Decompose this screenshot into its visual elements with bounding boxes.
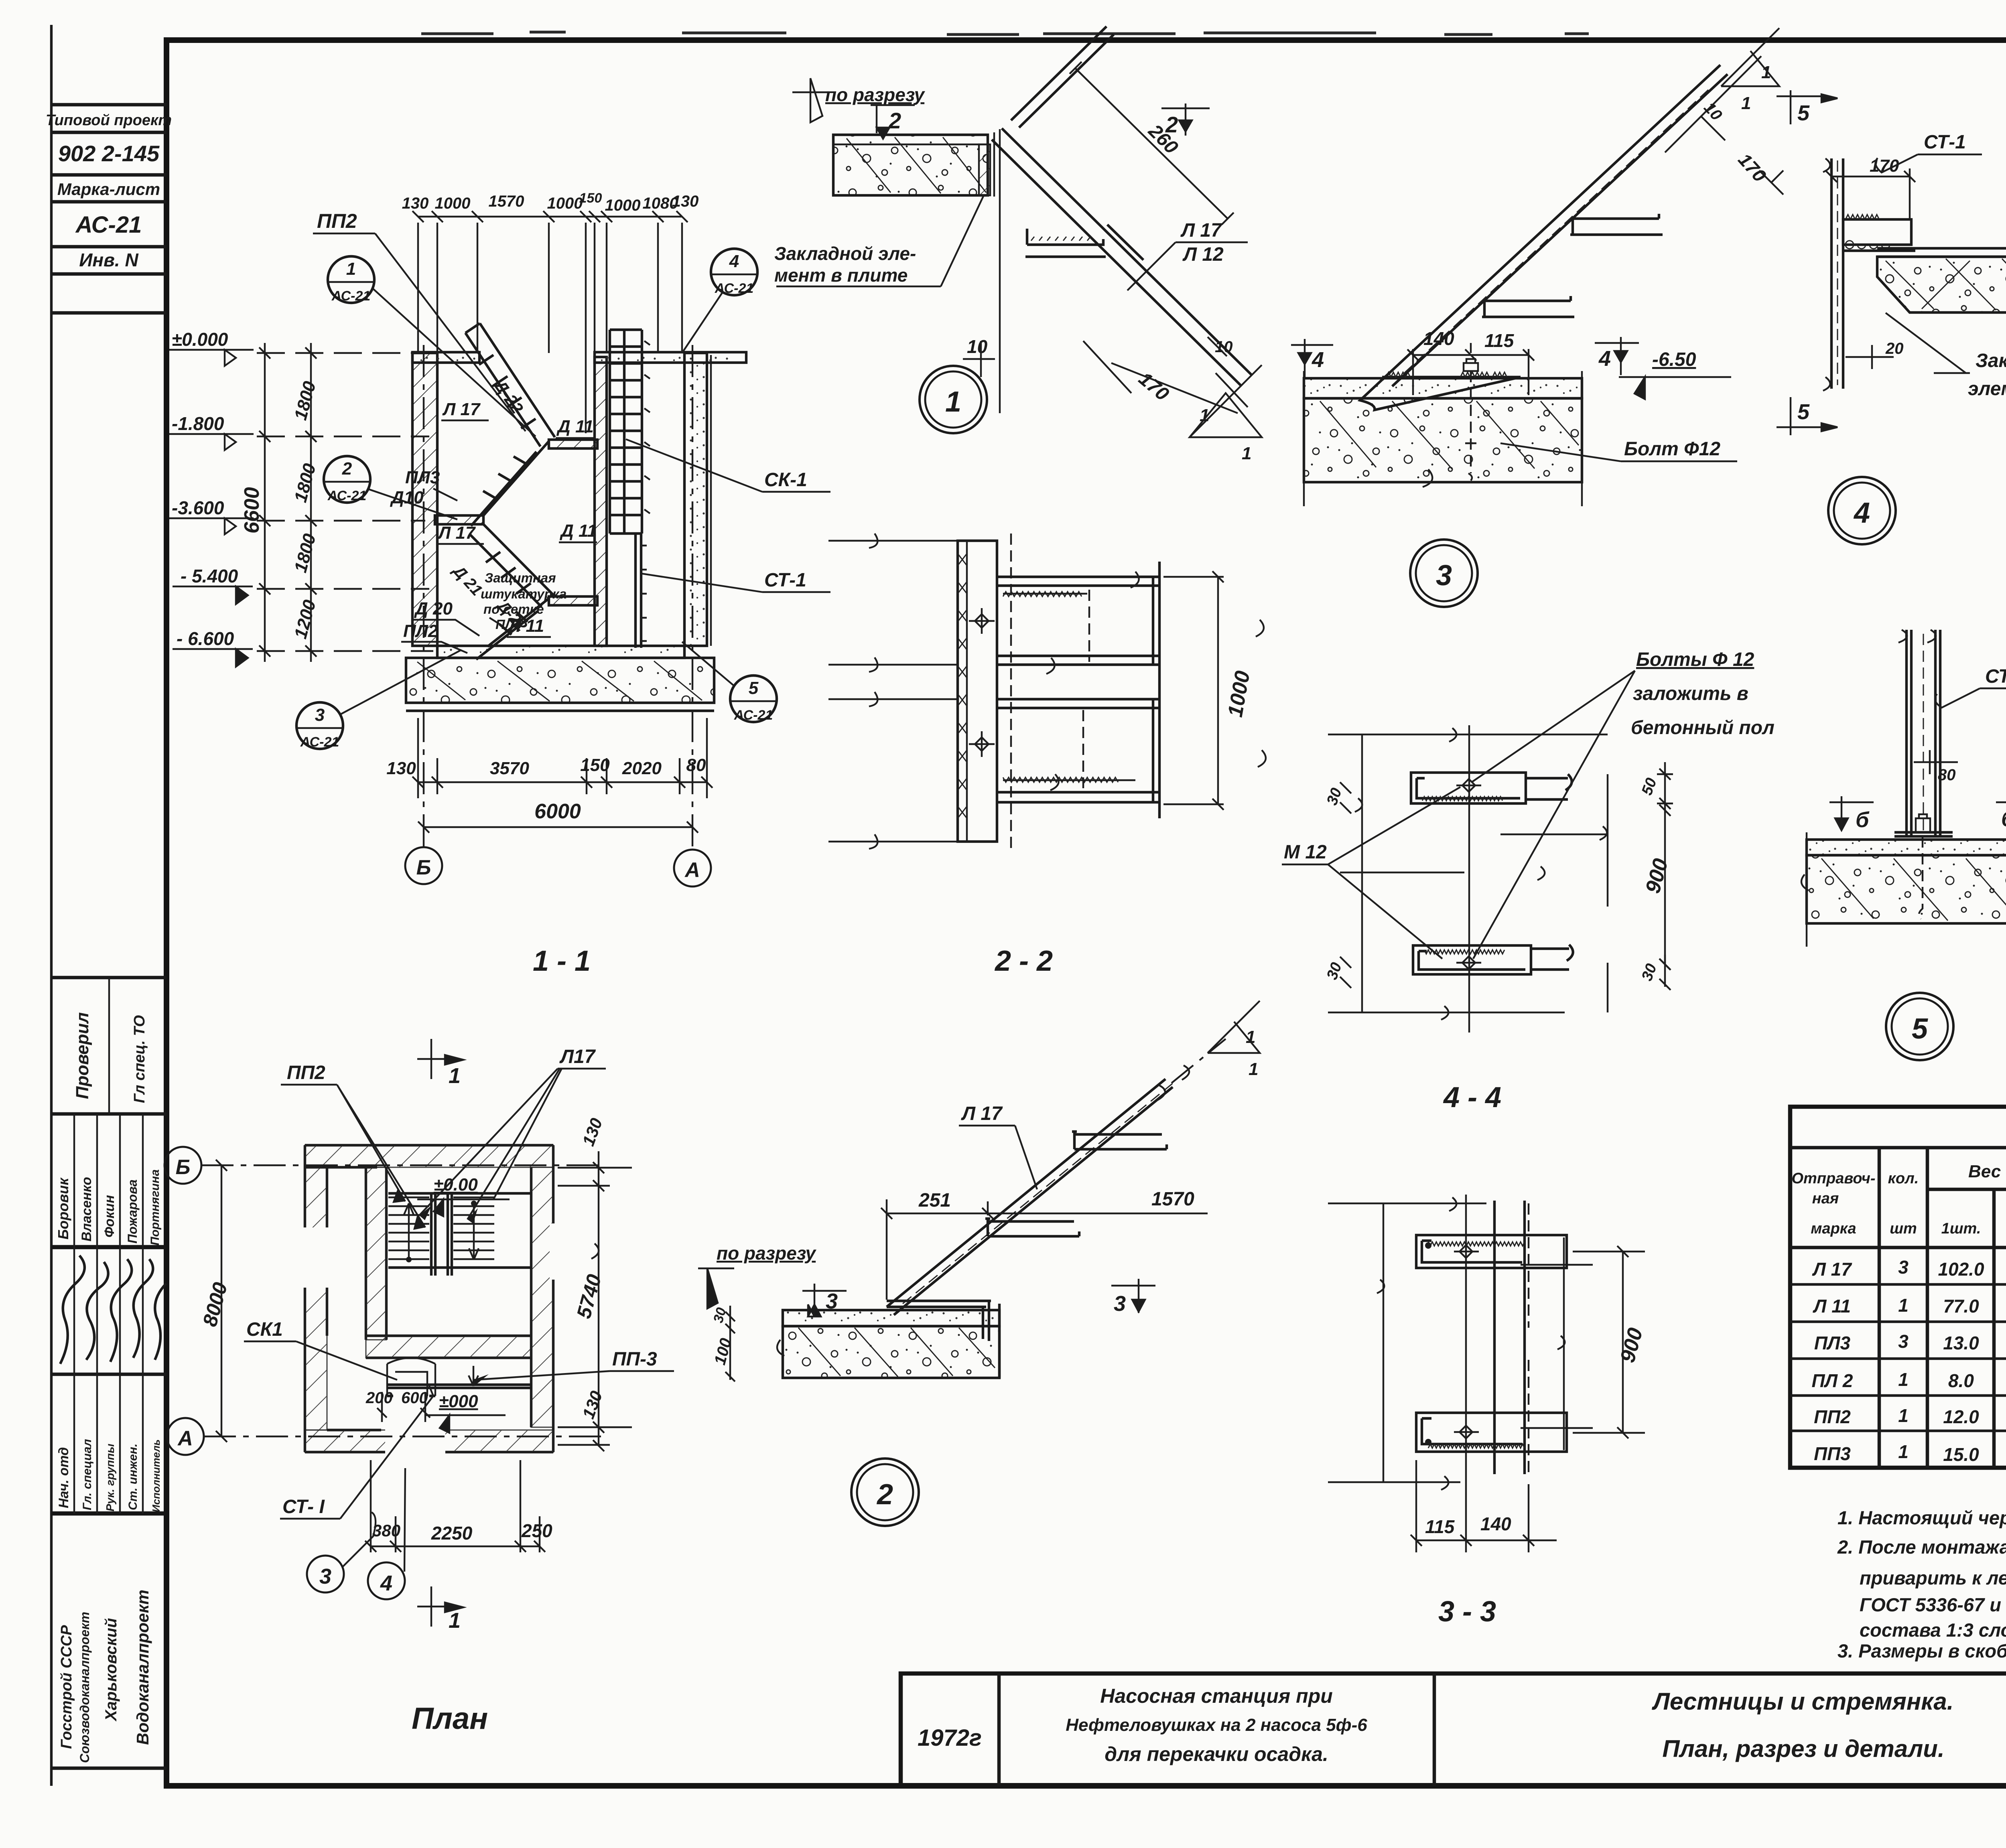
embedded element hatch at slab right end [979,144,990,195]
svg-text:1000: 1000 [1224,669,1255,719]
right wall [684,353,707,646]
svg-text:15.0: 15.0 [1943,1444,1979,1465]
svg-text:1: 1 [1200,406,1209,425]
svg-text:Вес в кг: Вес в кг [1968,1162,2006,1181]
svg-text:Л 17: Л 17 [437,523,476,543]
stairwell walls [366,1167,531,1358]
svg-text:2: 2 [876,1479,893,1511]
svg-text:СТ-1: СТ-1 [764,570,806,591]
svg-text:1: 1 [1898,1295,1909,1316]
svg-text:АС-21: АС-21 [331,288,371,304]
svg-text:77.0: 77.0 [1943,1296,1979,1317]
svg-text:ПП2: ПП2 [317,210,357,232]
svg-text:Рук. группы: Рук. группы [104,1444,116,1511]
svg-text:900: 900 [1641,856,1673,896]
svg-text:АС-21: АС-21 [715,281,754,296]
svg-text:12.0: 12.0 [1943,1406,1979,1427]
svg-text:13.0: 13.0 [1943,1333,1979,1353]
svg-text:элемент в пли-: элемент в пли- [1968,378,2006,400]
circle (3) [1410,540,1478,607]
circles 3 and 4 [307,1556,344,1592]
svg-text:3: 3 [1898,1257,1909,1278]
top wall hatch [305,1145,553,1167]
wall strip [958,541,997,842]
svg-text:АС-21: АС-21 [300,734,339,750]
svg-text:1шт.: 1шт. [1941,1220,1981,1237]
lower channel [1413,945,1573,974]
svg-text:102.0: 102.0 [1938,1259,1984,1280]
landing -3.600 [435,515,483,524]
svg-text:2. После монтажа стальных л: 2. После монтажа стальных лестниц с обра… [1837,1536,2006,1558]
svg-text:5: 5 [1797,101,1810,125]
svg-text:шт: шт [1890,1220,1917,1237]
svg-text:План: План [412,1702,488,1736]
vertical dim chains [259,343,317,662]
vertical drop line [999,129,1001,413]
svg-text:Союзводоканалпроект: Союзводоканалпроект [77,1612,92,1763]
slope triangle [1721,28,1779,86]
svg-text:4: 4 [1312,348,1324,372]
dim frame [1328,728,1608,1020]
svg-text:Болты Ф 12: Болты Ф 12 [1636,649,1754,670]
svg-text:115: 115 [1425,1516,1455,1537]
svg-text:ПП2: ПП2 [1814,1406,1851,1427]
stringer diagonal [887,1079,1173,1315]
svg-text:приварить к лестничным марш: приварить к лестничным маршам. сетку № 2… [1860,1567,2006,1588]
base plate [1894,832,1953,836]
svg-text:Л 11: Л 11 [1813,1296,1851,1317]
svg-text:СТ-1: СТ-1 [1924,132,1966,153]
svg-text:-1.800: -1.800 [172,413,224,434]
svg-text:1000: 1000 [605,197,641,214]
small 30 dims [1340,782,1351,988]
svg-text:Типовой проект: Типовой проект [46,112,172,129]
scan artifact streak on top edge [421,32,1589,34]
svg-text:150: 150 [579,191,602,206]
svg-text:380: 380 [372,1521,400,1540]
dim 20 bottom [1846,345,1894,369]
svg-text:б: б [1856,808,1870,832]
lower channel [1416,1413,1567,1452]
svg-text:1 - 1: 1 - 1 [533,945,591,977]
svg-text:Ст. инжен.: Ст. инжен. [126,1444,140,1510]
140 / 115 dims [1407,343,1534,395]
svg-text:130: 130 [402,195,429,212]
breaks on horizontals [1046,572,1139,790]
svg-text:ПЛ3: ПЛ3 [405,468,440,487]
slope marker 1 top right [1208,1001,1260,1053]
svg-text:Д10: Д10 [390,488,424,507]
top dim chain [412,211,688,433]
svg-text:мент в плите: мент в плите [774,265,908,286]
bottom dims 115 / 140 [1411,1460,1557,1552]
svg-text:1: 1 [1898,1405,1909,1426]
svg-text:200: 200 [365,1389,393,1407]
middle wall [595,357,607,646]
Болты Ф12 text [1631,649,1775,738]
svg-text:2020: 2020 [622,759,662,778]
svg-text:1800: 1800 [290,531,320,575]
svg-text:6000: 6000 [534,800,581,823]
svg-text:4: 4 [1598,347,1611,371]
svg-text:Д-22: Д-22 [490,375,527,417]
svg-text:ная: ная [1812,1190,1839,1207]
section marker 2 left [871,105,915,139]
svg-text:150: 150 [580,755,610,775]
svg-text:Харьковский: Харьковский [102,1618,120,1722]
level marks left [172,329,238,649]
svg-text:ПЛ3: ПЛ3 [495,617,522,632]
landing -5.400 [549,596,597,605]
svg-text:1: 1 [1761,63,1771,82]
3 markers [802,1284,847,1317]
floor screed at -6.600 [437,646,684,658]
svg-text:3: 3 [315,705,325,725]
svg-text:50: 50 [1639,776,1660,797]
svg-text:10: 10 [967,336,988,357]
svg-text:Д 11: Д 11 [559,521,597,541]
svg-text:по сетке: по сетке [483,602,544,617]
svg-text:по разрезу: по разрезу [717,1243,817,1264]
svg-text:АС-21: АС-21 [75,212,142,238]
svg-text:1000: 1000 [547,195,583,212]
landing -1.800 [549,440,597,448]
section marker 2 right [1161,103,1210,136]
svg-text:Д 11: Д 11 [556,417,594,436]
svg-text:Л 17: Л 17 [1812,1259,1852,1280]
svg-text:состава 1:3 слоем 20мм.: состава 1:3 слоем 20мм. [1860,1619,2006,1641]
dims [1665,56,1783,195]
svg-text:1: 1 [1898,1441,1909,1462]
svg-text:5: 5 [1797,400,1810,424]
svg-text:1: 1 [1741,93,1751,113]
svg-text:900: 900 [1616,1325,1647,1365]
right dims 130/5740/130 [558,1151,632,1451]
bottom dims 380 2250 250 [365,1460,545,1552]
svg-text:140: 140 [1423,328,1454,349]
svg-text:Л 17: Л 17 [1180,220,1222,241]
stringer [1360,65,1728,410]
svg-text:АС-21: АС-21 [327,488,367,503]
svg-text:А: А [177,1427,193,1450]
svg-text:4: 4 [729,252,739,271]
svg-text:1: 1 [449,1064,461,1088]
svg-text:Закладной эле-: Закладной эле- [774,243,916,264]
svg-text:80: 80 [1938,766,1956,784]
anchor bolt dashed [1919,836,1923,919]
ladder СК-1 [610,330,642,534]
svg-text:Инв. N: Инв. N [79,250,138,270]
door openings (white gaps) [301,1227,331,1288]
svg-text:1570: 1570 [489,193,524,210]
svg-text:Болт Ф12: Болт Ф12 [1624,438,1720,460]
svg-text:Госстрой СССР: Госстрой СССР [58,1625,75,1749]
svg-text:130: 130 [672,193,699,210]
svg-text:Гл спец. ТО: Гл спец. ТО [131,1015,148,1103]
section marker 1 top & bottom [417,1039,463,1079]
Закладной элемент в плите [1968,350,2006,426]
svg-text:902 2-145: 902 2-145 [58,141,160,166]
svg-text:ПП3: ПП3 [1814,1443,1851,1464]
dims 251 / 1570 [881,1199,1208,1300]
dim frame [1328,1197,1593,1490]
wall verticals [1494,1201,1525,1474]
svg-text:5: 5 [749,678,759,698]
circle (1) [920,366,987,433]
svg-text:Боровик: Боровик [55,1177,71,1239]
svg-text:по разрезу: по разрезу [825,84,926,105]
svg-text:Защитная: Защитная [485,570,556,585]
svg-text:ПП-3: ПП-3 [612,1349,657,1370]
circle (4) [1828,477,1896,544]
svg-text:100: 100 [711,1336,735,1367]
svg-text:6600: 6600 [240,487,264,534]
svg-text:3: 3 [319,1564,331,1588]
post [1907,630,1940,836]
svg-text:130: 130 [386,759,416,778]
flight 3 (down-right) [470,524,555,607]
svg-text:Д 21: Д 21 [449,561,485,599]
base plate serrated [1382,376,1521,378]
axis circles [164,1147,201,1184]
svg-text:4: 4 [380,1571,392,1595]
svg-text:80: 80 [686,755,706,775]
svg-text:140: 140 [1480,1513,1511,1534]
50 dims right [1657,762,1673,990]
900 dim [1573,1246,1645,1438]
dimension 260 along diagonal [1070,62,1234,225]
svg-text:М 12: М 12 [1284,842,1327,863]
svg-text:ПЛ3: ПЛ3 [1814,1333,1851,1353]
svg-text:1: 1 [945,386,961,418]
900 dim [1659,805,1671,970]
vertical rail [1831,158,1843,389]
svg-text:СТ-1: СТ-1 [1985,666,2006,687]
svg-text:3570: 3570 [490,759,529,778]
svg-text:2: 2 [888,108,901,133]
svg-text:2 - 2: 2 - 2 [994,945,1053,977]
svg-text:План, разрез и детали.: План, разрез и детали. [1662,1735,1944,1762]
svg-text:ПЛ 2: ПЛ 2 [1811,1370,1853,1391]
svg-text:2: 2 [342,459,352,479]
svg-text:Водоканалпроект: Водоканалпроект [133,1590,152,1745]
circle (2) [851,1459,919,1526]
upper channel [1416,1235,1567,1268]
floor slab [783,1310,999,1326]
flight arrows [404,1203,414,1260]
svg-text:170: 170 [1734,149,1770,186]
svg-text:Портнягина: Портнягина [148,1169,162,1246]
svg-text:1: 1 [449,1609,461,1633]
slope triangle 1/1 [1190,365,1262,437]
floor [1807,840,2006,855]
outer trim line [50,25,53,1786]
svg-text:Власенко: Власенко [79,1177,94,1241]
svg-text:Гл. специал: Гл. специал [81,1439,94,1510]
svg-text:б: б [2001,807,2006,831]
stair flight 1 (ПЛ2 + Л17 upper) [465,323,555,446]
svg-text:кол.: кол. [1888,1170,1919,1187]
svg-text:600: 600 [401,1389,428,1407]
lower member [997,682,1159,818]
upper member [997,562,1159,682]
svg-text:-3.600: -3.600 [172,497,224,518]
dim 170 top [1826,168,1915,219]
slab [833,135,988,195]
svg-text:30: 30 [711,1306,729,1325]
flight 2 (down-left) [471,441,549,526]
8000 dim [216,1160,227,1442]
upper channel [1411,773,1572,803]
svg-text:130: 130 [579,1388,606,1421]
svg-text:для перекачки осадка.: для перекачки осадка. [1105,1743,1328,1765]
svg-text:±0.000: ±0.000 [172,329,228,350]
svg-text:-6.50: -6.50 [1652,349,1696,370]
svg-text:Л 12: Л 12 [1182,244,1224,265]
б markers [1829,796,1874,830]
ladder СТ-1 lower [636,534,641,648]
signatures band squiggles [60,1256,85,1364]
svg-text:Б: Б [416,856,431,879]
svg-text:заложить в: заложить в [1633,683,1748,704]
stairs treads [388,1197,494,1259]
svg-text:СТ- I: СТ- I [282,1496,325,1517]
svg-text:±000: ±000 [439,1392,478,1411]
svg-text:СК1: СК1 [246,1319,283,1340]
svg-text:3: 3 [1436,560,1452,592]
svg-text:1. Настоящий чертеж рассмат: 1. Настоящий чертеж рассматривать совмес… [1837,1507,2006,1528]
svg-text:1: 1 [1898,1369,1909,1390]
svg-text:20: 20 [1885,340,1904,357]
100 / 30 dims [725,1306,735,1381]
svg-text:251: 251 [918,1190,951,1211]
svg-text:130: 130 [579,1116,606,1148]
svg-text:3: 3 [1114,1292,1126,1316]
sub dividers for signature bands [73,1114,75,1513]
svg-text:250: 250 [521,1520,552,1541]
steps [985,1132,1167,1236]
steps on stringer [1025,225,1143,260]
4 section markers [1291,339,1333,377]
svg-text:ПЛ2: ПЛ2 [403,621,438,641]
svg-text:штукатурка: штукатурка [481,586,566,601]
svg-text:Закладной: Закладной [1976,350,2006,371]
left extension lines [828,534,958,849]
svg-text:3. Размеры в скобках 'отно: 3. Размеры в скобках 'относятся к Д-22 [1837,1640,2006,1661]
svg-text:А: А [684,858,700,882]
dimension 170 lower [1083,341,1248,413]
svg-text:Нач. отд: Нач. отд [56,1447,71,1508]
svg-text:Л 17: Л 17 [442,400,481,419]
80 dim [1914,750,1958,774]
svg-text:Нефтеловушках на 2 насоса 5ф-6: Нефтеловушках на 2 насоса 5ф-6 [1066,1715,1367,1735]
svg-text:- 6.600: - 6.600 [177,628,234,649]
svg-text:30: 30 [1639,962,1660,983]
svg-text:4 - 4: 4 - 4 [1443,1081,1501,1114]
outer walls [305,1145,553,1452]
left wall hatched [412,353,437,646]
svg-text:1: 1 [346,259,356,279]
svg-text:1800: 1800 [290,379,320,422]
svg-text:АС-21: АС-21 [734,708,773,723]
svg-text:1: 1 [1242,444,1251,463]
svg-text:- 5.400: - 5.400 [181,566,238,586]
steps [1482,214,1663,317]
stringer diagonal [992,26,1252,386]
flight 4 (down-left to floor) [476,598,549,659]
svg-text:3: 3 [826,1289,838,1313]
svg-text:3 - 3: 3 - 3 [1438,1596,1496,1628]
svg-text:115: 115 [1484,330,1515,351]
svg-text:1: 1 [1249,1059,1258,1079]
svg-text:1570: 1570 [1151,1189,1194,1210]
svg-text:1: 1 [1246,1027,1255,1047]
top slabs at ±0.000 [412,352,479,363]
5 section markers [1777,90,1837,124]
svg-text:бетонный пол: бетонный пол [1631,717,1775,738]
right dim 1000 [1163,571,1224,810]
svg-text:Пожарова: Пожарова [125,1179,140,1243]
svg-text:Фокин: Фокин [102,1195,117,1237]
svg-text:1972г: 1972г [918,1725,982,1751]
svg-text:Л17: Л17 [559,1046,596,1067]
svg-text:4: 4 [1853,497,1870,529]
svg-text:Проверил: Проверил [73,1012,92,1099]
svg-text:3: 3 [1898,1331,1909,1352]
svg-text:8.0: 8.0 [1948,1370,1974,1391]
svg-text:Лестницы и стремянка.: Лестницы и стремянка. [1652,1688,1954,1715]
ПП-3 plate [386,1385,531,1388]
svg-text:Д 20: Д 20 [414,599,453,619]
svg-text:2250: 2250 [431,1523,473,1544]
svg-text:Марка-лист: Марка-лист [57,180,160,199]
svg-text:ГОСТ 5336-67 и оштукатурить ц: ГОСТ 5336-67 и оштукатурить цементным ра… [1860,1594,2006,1615]
svg-text:5740: 5740 [573,1272,606,1321]
svg-text:8000: 8000 [199,1280,232,1329]
circle (5) [1886,993,1953,1060]
base bend of stringer [887,1301,991,1341]
svg-text:Л 17: Л 17 [961,1103,1003,1124]
svg-text:СК-1: СК-1 [764,469,807,491]
lower room ladder СК1 door arc [387,1358,435,1396]
bolt [1464,359,1478,371]
slab Закладной элемент [1877,257,2006,312]
svg-text:1000: 1000 [435,195,471,212]
concrete floor [1304,378,1582,398]
svg-text:ПП2: ПП2 [287,1062,325,1083]
svg-text:Б: Б [176,1156,191,1179]
axes [424,341,692,846]
foundation slab [406,658,714,703]
svg-text:марка: марка [1811,1220,1856,1237]
svg-text:5: 5 [1912,1013,1928,1045]
bracket plate [1843,219,1911,245]
svg-text:Насосная станция при: Насосная станция при [1100,1685,1333,1707]
svg-text:1200: 1200 [290,598,320,641]
svg-text:Отправоч-: Отправоч- [1791,1170,1875,1187]
svg-text:1800: 1800 [290,461,320,505]
svg-text:Исполнитель: Исполнитель [150,1439,162,1512]
